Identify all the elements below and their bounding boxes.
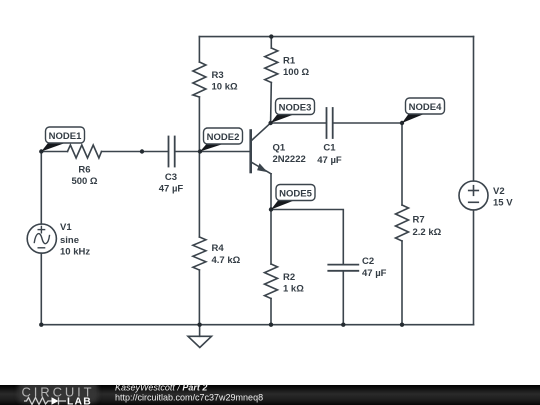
svg-text:47 µF: 47 µF bbox=[362, 268, 387, 279]
svg-text:R1: R1 bbox=[283, 56, 296, 67]
label Q1 value bbox=[273, 143, 306, 166]
ground bbox=[188, 325, 212, 348]
label C2 value bbox=[362, 256, 387, 279]
node R2 bottom dot bbox=[269, 323, 273, 327]
node label NODE5 bbox=[271, 185, 315, 210]
resistor R1 bbox=[265, 48, 278, 83]
svg-text:V1: V1 bbox=[60, 222, 72, 233]
svg-text:NODE1: NODE1 bbox=[49, 131, 82, 142]
label R7 value bbox=[413, 215, 442, 239]
node NODE5 dot bbox=[269, 207, 273, 211]
resistor R2 bbox=[265, 264, 278, 299]
svg-text:10 kHz: 10 kHz bbox=[60, 247, 90, 258]
node A main-left bbox=[39, 149, 43, 153]
wire main row left bbox=[41, 151, 67, 153]
svg-text:15 V: 15 V bbox=[493, 198, 513, 209]
wire emitter down to NODE5 bbox=[270, 174, 272, 210]
svg-text:NODE4: NODE4 bbox=[409, 102, 442, 113]
label C3 value bbox=[159, 172, 184, 195]
label R6 value bbox=[71, 165, 97, 188]
wire C3 to Q1 base bbox=[175, 151, 251, 153]
label R3 value bbox=[212, 70, 238, 93]
svg-text:1 kΩ: 1 kΩ bbox=[283, 284, 304, 295]
node bottom-left dot bbox=[39, 323, 43, 327]
svg-text:R7: R7 bbox=[413, 215, 425, 226]
wire R3 bottom to NODE2 bbox=[198, 97, 200, 152]
resistor R6 bbox=[68, 145, 102, 158]
svg-text:100 Ω: 100 Ω bbox=[283, 67, 309, 78]
resistor R4 bbox=[193, 237, 206, 270]
wire R4 bottom bbox=[198, 270, 200, 325]
footer logo resistor-diode bbox=[24, 397, 66, 404]
wire R7 bottom bbox=[401, 241, 403, 325]
node C2 bottom dot bbox=[341, 323, 345, 327]
svg-text:V2: V2 bbox=[493, 186, 505, 197]
svg-text:47 µF: 47 µF bbox=[159, 184, 184, 195]
wire V1 top bbox=[40, 152, 42, 225]
resistor R3 bbox=[193, 62, 206, 97]
svg-text:NODE5: NODE5 bbox=[279, 188, 312, 199]
wire NODE5 row to C2 bbox=[271, 210, 343, 265]
svg-text:http://circuitlab.com/c7c37w29: http://circuitlab.com/c7c37w29mneq8 bbox=[115, 392, 263, 402]
node R1 top dot bbox=[269, 34, 273, 38]
voltage source V2 bbox=[459, 181, 488, 210]
svg-text:Q1: Q1 bbox=[273, 143, 286, 154]
resistor R7 bbox=[396, 205, 409, 241]
node B R6-C3 junction bbox=[140, 149, 144, 153]
svg-text:R4: R4 bbox=[212, 243, 225, 254]
label R2 value bbox=[283, 272, 304, 295]
svg-text:NODE3: NODE3 bbox=[279, 102, 312, 113]
label V1 value bbox=[60, 222, 90, 258]
wire V2 bottom bbox=[473, 210, 475, 325]
wire V2 top bbox=[473, 37, 475, 181]
capacitor C3 bbox=[169, 137, 175, 167]
svg-text:R6: R6 bbox=[78, 165, 90, 176]
svg-text:4.7 kΩ: 4.7 kΩ bbox=[212, 255, 241, 266]
svg-text:C2: C2 bbox=[362, 256, 374, 267]
node label NODE3 bbox=[271, 99, 315, 124]
node label NODE1 bbox=[41, 127, 84, 152]
svg-text:sine: sine bbox=[60, 235, 79, 246]
node ground dot bbox=[197, 323, 201, 327]
svg-text:10 kΩ: 10 kΩ bbox=[212, 82, 238, 93]
wire NODE3 to C1 bbox=[271, 122, 327, 124]
voltage source V1 bbox=[27, 224, 56, 253]
label C1 value bbox=[317, 143, 342, 167]
label V2 value bbox=[493, 186, 513, 209]
wire R1 bottom to NODE3 bbox=[270, 83, 273, 124]
node NODE3 dot bbox=[268, 121, 272, 125]
node label NODE2 bbox=[200, 128, 243, 152]
svg-text:2N2222: 2N2222 bbox=[273, 154, 306, 165]
svg-text:KaseyWestcott / Part 2: KaseyWestcott / Part 2 bbox=[115, 383, 207, 393]
capacitor C2 bbox=[328, 265, 358, 271]
svg-text:2.2 kΩ: 2.2 kΩ bbox=[413, 227, 442, 238]
node NODE2 dot bbox=[198, 149, 202, 153]
wire V1 bottom bbox=[40, 253, 42, 325]
label R1 value bbox=[283, 56, 309, 79]
node NODE4 dot bbox=[400, 121, 404, 125]
transistor Q1 bbox=[251, 123, 271, 174]
footer bar bbox=[0, 385, 540, 405]
wire top rail bbox=[199, 36, 473, 38]
wire bottom rail bbox=[41, 324, 473, 326]
label R4 value bbox=[212, 243, 241, 266]
wire R1 top bbox=[270, 37, 272, 48]
wire R3 column top bbox=[198, 37, 200, 62]
svg-text:C1: C1 bbox=[323, 143, 336, 154]
wire C2 bottom bbox=[342, 271, 344, 325]
svg-text:NODE2: NODE2 bbox=[207, 132, 240, 143]
svg-text:500 Ω: 500 Ω bbox=[71, 176, 97, 187]
svg-text:LAB: LAB bbox=[67, 397, 92, 405]
svg-text:C3: C3 bbox=[165, 172, 177, 183]
capacitor C1 bbox=[327, 108, 333, 138]
svg-text:R3: R3 bbox=[212, 70, 224, 81]
transistor Q1 emitter arrow bbox=[257, 163, 267, 172]
wire R6 to C3 bbox=[102, 151, 169, 153]
wire NODE4 to R7 bbox=[401, 123, 403, 205]
wire R2 bottom bbox=[270, 299, 272, 325]
node label NODE4 bbox=[402, 98, 445, 123]
svg-text:R2: R2 bbox=[283, 272, 295, 283]
node R7 bottom dot bbox=[400, 323, 404, 327]
svg-text:47 µF: 47 µF bbox=[317, 155, 342, 166]
wire C1 to NODE4 bbox=[333, 122, 402, 124]
wire R4 top bbox=[198, 152, 200, 238]
wire NODE5 to R2 bbox=[270, 210, 272, 265]
